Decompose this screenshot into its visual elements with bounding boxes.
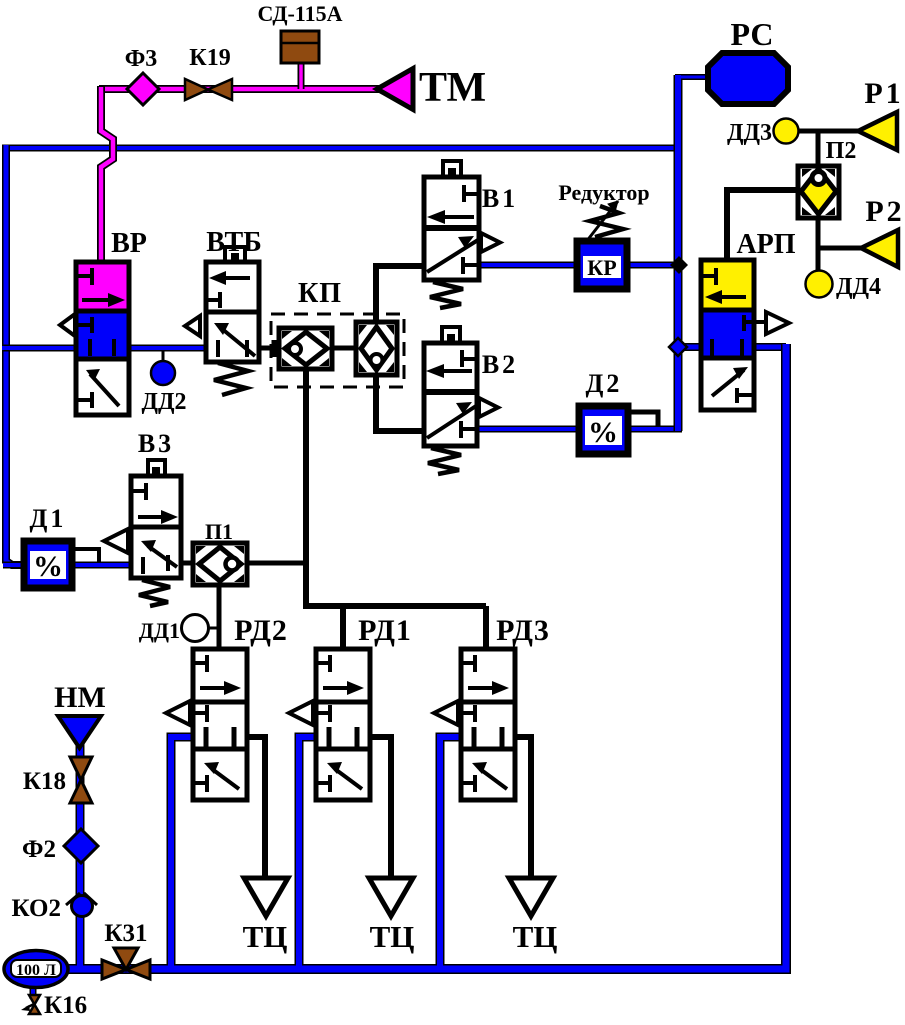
wire РД2 output to ТЦ1 [245,737,265,878]
wire left-vertical-bus [6,145,22,565]
receiver РС [708,16,788,104]
wire right-vertical-bus [674,75,683,431]
svg-text:КР: КР [587,255,616,280]
svg-text:ДД4: ДД4 [836,274,881,300]
wire junction patches (blue joins) [6,75,786,969]
svg-text:100 Л: 100 Л [16,962,56,979]
svg-text:ТЦ: ТЦ [243,919,288,954]
svg-text:К31: К31 [104,920,147,947]
wire tank drain stub [30,983,37,999]
valve РД2 [166,614,288,800]
wire bottom-bus [55,964,788,974]
wire КП right shuttle to В1 [376,266,422,325]
wire П2 bottom to ДД4 and Р2 [818,216,862,272]
shuttle КП-right [356,322,397,375]
svg-text:НМ: НМ [54,681,106,714]
svg-text:ВТБ: ВТБ [206,227,262,258]
wire РД2 feed [171,737,195,969]
cylinder ТЦ3 [509,878,557,954]
sensor ДД3 [727,119,799,147]
wire В2 to Д2 to bus [475,426,682,433]
svg-text:ТМ: ТМ [419,65,486,111]
horn Р2 [861,195,905,267]
wire magenta main horizontal [99,85,380,93]
wire АРП pilot to П2 [727,190,798,262]
svg-text:%: % [33,550,63,583]
junction node АРП-bus [669,338,687,356]
wire КП left shuttle output down [303,367,309,608]
svg-text:ДД1: ДД1 [139,618,180,643]
svg-text:РД3: РД3 [496,614,550,647]
wire КП right shuttle to В2 [376,372,422,431]
svg-text:РС: РС [730,16,773,52]
svg-text:%: % [588,416,618,449]
drain valve К16 [21,992,87,1019]
valve В1 [424,161,518,308]
wire П1 down to РД2 [217,582,222,652]
cylinder ТЦ1 [243,878,288,954]
wire ДД1 tick [208,627,219,630]
svg-text:ДД3: ДД3 [727,120,772,146]
valve К19 [185,45,232,100]
wire distribution header to РД1 РД3 [303,606,486,652]
wire РД3 feed [440,737,463,969]
check-valve block КП dashed box [271,278,404,387]
shuttle valve П1 [193,519,247,585]
sensor ДД4 [806,271,882,301]
svg-text:В3: В3 [138,429,174,458]
horn Р1 [858,77,904,150]
svg-text:КП: КП [298,278,342,309]
svg-text:РД2: РД2 [234,614,288,647]
wire Д1 outlet hook [74,549,99,562]
valve ВР [60,228,147,415]
shuttle КП-left [274,328,332,369]
wire СД-115А stem [298,60,305,89]
valve К31 [102,920,150,979]
wire П2 top to ДД3 line [797,131,860,168]
wire magenta vertical with hop over blue line [101,86,113,264]
valve АРП [701,229,796,410]
svg-text:АРП: АРП [736,229,795,260]
wire В3 to П1 [179,561,195,566]
wire П1 output right [245,561,306,566]
svg-text:К19: К19 [189,45,230,71]
wire mid-horizontal ВР feed [2,345,78,352]
pump НМ [54,681,106,748]
wire ВР to ВТБ [127,345,208,352]
svg-text:РД1: РД1 [358,614,412,647]
valve РД3 [434,614,550,800]
wire РД1 output to ТЦ2 [368,737,391,878]
svg-text:Ф3: Ф3 [125,46,158,72]
tank 100Л [4,951,68,988]
shuttle valve П2 [798,138,856,218]
valve ВТБ [185,227,262,395]
svg-text:Редуктор: Редуктор [558,180,649,205]
svg-text:Ф2: Ф2 [22,836,56,863]
svg-text:Д1: Д1 [30,504,67,533]
svg-text:ТЦ: ТЦ [370,919,415,954]
svg-text:П2: П2 [826,138,857,164]
junction node КР-bus [670,256,688,274]
wire КП shuttle link [330,346,358,351]
wire РС feed [675,74,712,80]
wire Д2 outlet hook [630,412,658,427]
wire АРП output down [780,344,786,969]
valve К18 [23,757,92,803]
valve В3 [104,429,181,606]
reducer КР [558,180,649,289]
svg-text:П1: П1 [205,519,233,544]
svg-text:В2: В2 [482,350,518,379]
svg-text:КО2: КО2 [12,895,61,922]
sensor СД-115А [258,1,343,63]
throttle Д2 [579,369,628,454]
throttle Д1 [24,504,72,588]
svg-text:Р2: Р2 [865,195,904,228]
wire ВТБ to КП [257,346,281,351]
valve В2 [424,327,518,474]
wire РД1 feed [299,737,318,969]
filter Ф2 [22,829,98,863]
svg-text:Р1: Р1 [864,77,903,110]
wire РД3 output to ТЦ3 [512,737,531,878]
svg-text:Д2: Д2 [586,369,623,398]
wire АРП through-line [678,343,786,351]
filter Ф3 [125,46,159,105]
svg-text:В1: В1 [482,184,518,213]
sensor ДД1 [139,615,209,644]
wire НМ column [76,744,85,969]
cylinder ТЦ2 [369,878,414,954]
svg-text:СД-115А: СД-115А [258,1,343,26]
wire top-horizontal-main [2,145,682,152]
svg-text:ВР: ВР [111,228,147,259]
svg-text:К18: К18 [23,768,66,795]
svg-text:К16: К16 [44,992,87,1019]
wire В1 to КР to bus [477,262,680,269]
svg-text:ТЦ: ТЦ [513,919,558,954]
valve РД1 [289,614,412,800]
svg-text:ДД2: ДД2 [141,389,186,415]
sensor ДД2 [141,350,186,415]
wire Д1 feed and Д1 to В3 [3,562,145,569]
horn ТМ [377,65,486,111]
check valve КО2 [12,893,97,922]
